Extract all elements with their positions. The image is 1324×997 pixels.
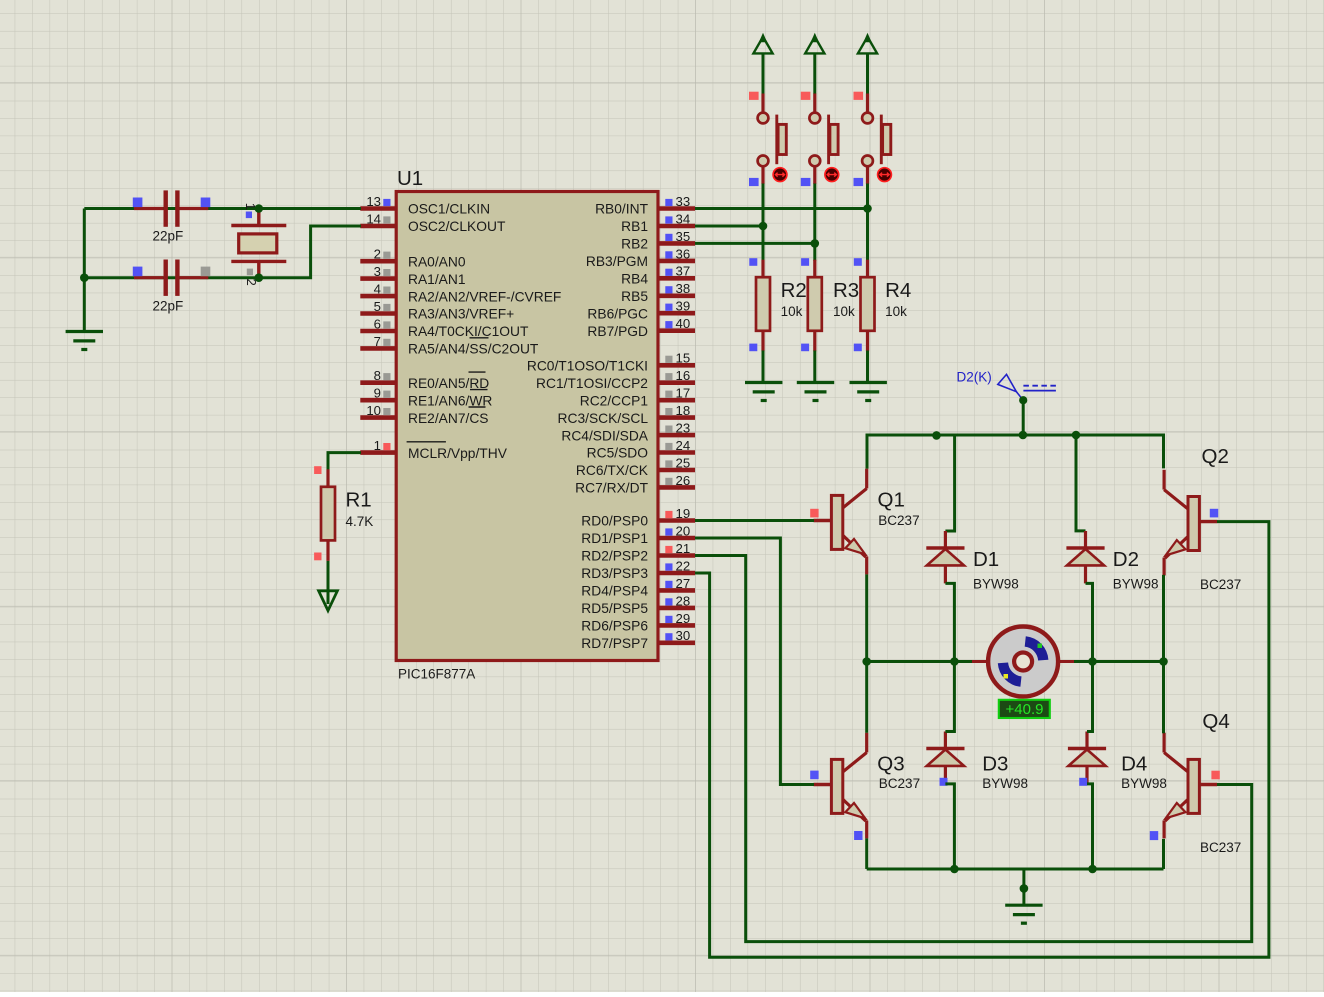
wire pin19 to Q1 base [695,519,814,522]
svg-text:35: 35 [676,229,691,244]
svg-text:RA0/AN0: RA0/AN0 [408,254,466,269]
svg-text:13: 13 [366,194,381,209]
junction node (crystal pin1) [254,204,263,213]
svg-text:14: 14 [366,211,381,226]
U1 pin 40 (RB7/PGD) [587,316,695,339]
svg-text:D3: D3 [982,753,1008,776]
wire pin22 to Q2 base (long route) [695,522,1269,958]
svg-text:RC2/CCP1: RC2/CCP1 [580,393,648,408]
U1 pin 6 (RA4/T0CKI/C1OUT) [360,316,529,339]
wire D4 to bottom rail [1087,784,1093,869]
wire power to button 2 [813,53,816,94]
svg-text:20: 20 [676,523,691,538]
svg-text:Q4: Q4 [1202,710,1229,733]
svg-text:40: 40 [676,316,691,331]
svg-text:RE1/AN6/WR: RE1/AN6/WR [408,393,492,408]
svg-text:34: 34 [676,211,691,226]
wire D3 to bottom rail [945,784,954,869]
ground (R4) [850,383,887,401]
svg-text:RA5/AN4/SS/C2OUT: RA5/AN4/SS/C2OUT [408,342,539,357]
Q4 base state square [1211,771,1219,780]
svg-text:BYW98: BYW98 [1121,776,1167,791]
svg-text:10k: 10k [781,304,803,319]
U1 pin 22 (RD3/PSP3) [581,558,695,581]
U1 pin 38 (RB5) [621,281,695,304]
svg-text:R3: R3 [833,279,859,302]
wire power to button 1 [762,53,765,94]
svg-text:RD5/PSP5: RD5/PSP5 [581,601,648,616]
ground (R3) [797,383,834,401]
wire pin21 to Q4 base (long route) [695,556,1252,942]
U1 pin 14 (OSC2/CLKOUT) [360,211,506,234]
U1 pin 29 (RD6/PSP6) [581,611,695,634]
U1 pin 39 (RB6/PGC) [587,299,695,322]
wire pin14 net (OSC2) [84,226,361,278]
wire bottom rail [867,868,1164,871]
svg-text:RC4/SDI/SDA: RC4/SDI/SDA [561,428,648,443]
R3 state square bottom [801,344,809,352]
svg-text:21: 21 [676,541,691,556]
svg-text:Q2: Q2 [1202,445,1229,468]
motor left lead [972,660,990,663]
wire motor rail right [1074,660,1164,663]
motor right lead [1056,660,1074,663]
junction node motor rail Q1/Q3 [862,657,871,666]
DC motor [988,627,1058,697]
diode D3 BYW98 [926,732,964,784]
diode D2 BYW98 [1066,531,1104,583]
svg-text:RB3/PGM: RB3/PGM [586,254,648,269]
wire R1 to power-down arrow [327,561,330,604]
junction node motor rail D1/D3 [950,657,959,666]
svg-text:RC0/T1OSO/T1CKI: RC0/T1OSO/T1CKI [527,359,648,374]
svg-text:R4: R4 [885,279,911,302]
R4 state square top [854,258,862,266]
wire pin33 to button column 3 [695,207,868,210]
junction node motor rail D2/D4 [1088,657,1097,666]
wire button 1 to resistor R2 [762,184,765,262]
probe node dot [1019,396,1027,404]
wire probe to top rail [1022,400,1025,435]
svg-text:BC237: BC237 [1200,577,1241,592]
U1 pin 36 (RB3/PGM) [586,246,695,269]
ground (oscillator) [66,332,103,350]
crystal X1 [231,210,286,276]
U1 pin 2 (RA0/AN0) [360,247,466,270]
push button 2 [809,94,838,185]
power symbol (button 3) [858,33,877,54]
motor speed display +40.9 [999,700,1050,718]
svg-text:PIC16F877A: PIC16F877A [398,667,475,682]
junction node (ground wire) [1020,884,1029,893]
resistor R1 [321,469,335,561]
wire motor rail to D4 [1087,662,1093,732]
U1 pin 16 (RC1/T1OSI/CCP2) [536,368,695,391]
svg-text:RD4/PSP4: RD4/PSP4 [581,584,648,599]
svg-text:BC237: BC237 [879,776,920,791]
svg-text:Q3: Q3 [877,753,904,776]
svg-text:4.7K: 4.7K [346,514,374,529]
svg-text:RE2/AN7/CS: RE2/AN7/CS [408,411,489,426]
diode D4 BYW98 [1068,732,1106,784]
svg-text:BYW98: BYW98 [982,776,1028,791]
U1 pin 25 (RC6/TX/CK) [576,455,695,478]
svg-text:5: 5 [374,299,381,314]
U1 pin 20 (RD1/PSP1) [581,523,695,546]
R1 state square top [314,466,321,474]
svg-text:8: 8 [374,368,381,383]
D4 state square [1079,778,1087,786]
wire left vertical to ground [83,209,86,331]
U1 overline WR (pin 9 label) [470,389,488,391]
svg-text:28: 28 [676,593,691,608]
button 2 state square (top) [801,92,811,100]
svg-text:R2: R2 [781,279,807,302]
svg-text:RD6/PSP6: RD6/PSP6 [581,619,648,634]
svg-text:BC237: BC237 [878,513,919,528]
svg-text:RB4: RB4 [621,272,648,287]
capacitor C1 [134,190,208,226]
wire D2 to motor rail [1086,583,1093,662]
U1 overline MCLR (pin 1 label) [407,441,446,443]
svg-text:3: 3 [374,264,381,279]
transistor Q1 BC237 [814,469,867,575]
svg-text:RC1/T1OSI/CCP2: RC1/T1OSI/CCP2 [536,376,648,391]
U1 pin 10 (RE2/AN7/CS) [360,403,488,426]
wire R4 to ground [866,351,869,383]
voltage probe D2(K) [998,374,1056,400]
svg-text:BYW98: BYW98 [973,577,1019,592]
Q4 emitter state square [1150,831,1158,840]
svg-text:10k: 10k [885,304,907,319]
crystal state squares [246,212,253,276]
U1 pin 37 (RB4) [621,264,695,287]
svg-text:10k: 10k [833,304,855,319]
svg-text:RC6/TX/CK: RC6/TX/CK [576,463,649,478]
svg-text:15: 15 [676,351,691,366]
svg-text:RA2/AN2/VREF-/CVREF: RA2/AN2/VREF-/CVREF [408,289,561,304]
U1 pin 17 (RC2/CCP1) [580,386,695,409]
svg-text:19: 19 [676,506,691,521]
wire button 2 to resistor R3 [813,184,816,262]
U1 pin 27 (RD4/PSP4) [581,576,695,599]
push button 1 [758,94,787,185]
svg-text:RC5/SDO: RC5/SDO [587,446,649,461]
wire R2 to ground [762,351,765,383]
junction node (C2/left rail) [80,273,89,282]
svg-text:22: 22 [676,558,691,573]
wire pin34 to button column 1 [695,225,763,228]
svg-text:27: 27 [676,576,691,591]
svg-text:30: 30 [676,628,691,643]
svg-text:D4: D4 [1121,753,1147,776]
junction node motor rail Q2/Q4 [1159,657,1168,666]
button 3 state square (bottom) [854,178,864,186]
svg-text:RB0/INT: RB0/INT [595,202,648,217]
junction node pin35/column2 [811,239,820,248]
IC U1 PIC16F877A body [396,192,658,661]
svg-text:MCLR/Vpp/THV: MCLR/Vpp/THV [408,446,508,461]
wire R3 to ground [813,351,816,383]
svg-text:RE0/AN5/RD: RE0/AN5/RD [408,376,489,391]
svg-text:RA3/AN3/VREF+: RA3/AN3/VREF+ [408,307,514,322]
diode D1 BYW98 [926,531,964,583]
svg-text:7: 7 [374,334,381,349]
wire Q1 emitter to motor rail [865,574,868,662]
U1 overline CS (pin 10 label) [469,406,486,408]
capacitor C2 [134,260,208,296]
U1 overline RD (pin 8 label) [469,371,486,373]
button 2 state square (bottom) [801,178,811,186]
U1 pin 19 (RD0/PSP0) [581,506,695,529]
svg-text:RA1/AN1: RA1/AN1 [408,272,466,287]
resistor R2 10k pull-down [756,260,770,352]
transistor Q2 BC237 (mirrored) [1164,470,1217,576]
wire Q4 collector to motor rail [1162,662,1165,733]
wire motor rail left [867,660,972,663]
wire Q3 emitter to bottom rail [865,838,868,869]
push button 3 [862,94,891,185]
button 1 state square (top) [749,92,759,100]
U1 pin 7 (RA5/AN4/SS/C2OUT) [360,334,539,357]
wire pin13 net (OSC1) [84,207,361,210]
wire motor rail to D3 [945,662,954,732]
power symbol (button 2) [805,33,824,54]
R4 state square bottom [854,344,862,352]
R2 state square bottom [749,344,757,352]
U1 pin 34 (RB1) [621,211,695,234]
wire pin35 to button column 2 [695,242,815,245]
transistor Q4 BC237 (mirrored) [1164,733,1217,839]
svg-text:RD0/PSP0: RD0/PSP0 [581,514,648,529]
resistor R4 10k pull-down [861,260,875,352]
svg-text:10: 10 [366,403,381,418]
svg-text:25: 25 [676,455,691,470]
U1 pin 28 (RD5/PSP5) [581,593,695,616]
svg-text:38: 38 [676,281,691,296]
D3 state square [940,778,948,786]
svg-text:RC7/RX/DT: RC7/RX/DT [575,481,648,496]
U1 pin 9 (RE1/AN6/WR) [360,386,492,409]
junction node pin33/column3 [863,204,872,213]
U1 overline SS (pin 7 label) [470,337,489,339]
U1 pin 1 (MCLR/Vpp/THV) [360,438,507,461]
svg-text:4: 4 [374,282,381,297]
R1 state square bottom [314,553,321,561]
junction node (crystal pin2) [254,273,263,282]
junction node pin34/column1 [759,222,768,231]
junction node bottom rail D4 [1088,865,1097,874]
svg-text:22pF: 22pF [153,299,184,314]
junction node top rail (D2) [1072,431,1081,440]
wire top rail to D1 [945,435,954,531]
U1 pin 26 (RC7/RX/DT) [575,473,695,496]
svg-text:36: 36 [676,246,691,261]
junction node top rail (power feed) [1019,431,1028,440]
svg-text:24: 24 [676,438,691,453]
wire button 3 to resistor R4 [866,184,869,262]
ground (H-bridge) [1005,905,1042,923]
button 1 state square (bottom) [749,178,759,186]
svg-text:Q1: Q1 [878,489,905,512]
wire power to button 3 [866,53,869,94]
U1 pin 21 (RD2/PSP2) [581,541,695,564]
svg-text:D2: D2 [1113,548,1139,571]
U1 pin 18 (RC3/SCK/SCL) [558,403,695,426]
power-down arrow (VSS) [319,591,338,611]
U1 pin 3 (RA1/AN1) [360,264,465,287]
svg-text:OSC1/CLKIN: OSC1/CLKIN [408,202,490,217]
U1 pin 24 (RC5/SDO) [587,438,695,461]
U1 pin 23 (RC4/SDI/SDA) [561,421,695,444]
svg-text:RA4/T0CKI/C1OUT: RA4/T0CKI/C1OUT [408,324,529,339]
wire bottom rail to ground [1022,869,1025,905]
svg-text:33: 33 [676,194,691,209]
R2 state square top [749,258,757,266]
wire pin1 MCLR to R1 [328,453,361,471]
U1 pin 5 (RA3/AN3/VREF+) [360,299,514,322]
wire pin20 to Q3 base [695,538,814,785]
svg-text:RB6/PGC: RB6/PGC [587,306,648,321]
U1 pin 8 (RE0/AN5/RD) [360,368,489,391]
svg-text:29: 29 [676,611,691,626]
Q1 base state square [810,509,818,518]
svg-text:R1: R1 [346,489,372,512]
svg-text:6: 6 [374,316,381,331]
svg-text:RD2/PSP2: RD2/PSP2 [581,549,648,564]
Q2 base state square [1210,509,1218,518]
svg-text:1: 1 [374,438,381,453]
svg-text:BC237: BC237 [1200,840,1241,855]
svg-text:RD3/PSP3: RD3/PSP3 [581,566,648,581]
Q3 base state square [810,771,818,780]
svg-text:RD1/PSP1: RD1/PSP1 [581,531,648,546]
svg-text:OSC2/CLKOUT: OSC2/CLKOUT [408,219,506,234]
wire top rail [867,435,1164,469]
transistor Q3 BC237 [814,733,867,839]
U1 pin 35 (RB2) [621,229,695,252]
C2 state squares [133,267,211,277]
svg-text:16: 16 [676,368,691,383]
resistor R3 10k pull-down [808,260,822,352]
U1 pin 15 (RC0/T1OSO/T1CKI) [527,351,695,374]
wire top rail to D2 [1076,435,1086,531]
wire Q3 collector to motor rail [865,662,868,733]
svg-text:D1: D1 [973,548,999,571]
svg-text:U1: U1 [397,167,423,190]
U1 pin 4 (RA2/AN2/VREF-/CVREF) [360,282,561,305]
svg-text:RC3/SCK/SCL: RC3/SCK/SCL [558,411,649,426]
svg-text:RD7/PSP7: RD7/PSP7 [581,636,648,651]
ground (R2) [745,383,782,401]
Q3 emitter state square [854,831,862,840]
svg-text:9: 9 [374,386,381,401]
wire D1 to motor rail [945,583,954,662]
button 3 state square (top) [854,92,864,100]
svg-text:RB5: RB5 [621,289,648,304]
svg-text:18: 18 [676,403,691,418]
svg-text:37: 37 [676,264,691,279]
R3 state square top [801,258,809,266]
svg-text:D2(K): D2(K) [957,370,992,385]
power symbol (button 1) [753,33,772,54]
svg-text:17: 17 [676,386,691,401]
wire Q4 emitter to bottom rail [1162,839,1165,869]
svg-text:39: 39 [676,299,691,314]
svg-text:26: 26 [676,473,691,488]
U1 pin 30 (RD7/PSP7) [581,628,695,651]
U1 pin 13 (OSC1/CLKIN) [360,194,490,217]
svg-text:22pF: 22pF [153,229,184,244]
junction node top rail (left) [932,431,941,440]
svg-text:RB2: RB2 [621,237,648,252]
svg-text:RB7/PGD: RB7/PGD [587,324,648,339]
junction node bottom rail D3 [950,865,959,874]
svg-text:BYW98: BYW98 [1113,577,1159,592]
svg-text:RB1: RB1 [621,219,648,234]
U1 pin 33 (RB0/INT) [595,194,695,217]
wire Q2 emitter to motor rail [1162,575,1165,662]
svg-text:23: 23 [676,421,691,436]
svg-text:+40.9: +40.9 [1006,701,1044,718]
C1 state squares [133,198,211,208]
svg-text:2: 2 [374,247,381,262]
